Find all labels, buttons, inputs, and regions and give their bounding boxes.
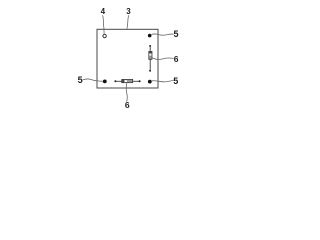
pad 5 (bottom left): [103, 80, 107, 84]
svg-text:6: 6: [174, 54, 179, 64]
svg-text:5: 5: [173, 76, 178, 86]
label 6 (bottom) with leader to horizontal component: [125, 83, 130, 110]
pad 5 (bottom right): [148, 80, 152, 84]
label 5 (bottom right) with leader to pad: [152, 76, 179, 86]
label 4 with leader to mounting hole: [101, 7, 106, 34]
mounting hole 4: [103, 34, 106, 37]
label 5 (top right) with leader to pad: [152, 29, 179, 39]
svg-text:3: 3: [126, 7, 131, 16]
component 6 (vertical, right side): [149, 45, 152, 72]
svg-text:5: 5: [78, 75, 83, 85]
component 6 (horizontal, bottom): [114, 79, 140, 82]
pad 5 (top right): [148, 34, 152, 38]
svg-text:4: 4: [101, 7, 106, 16]
label 3 with leader to board edge: [126, 7, 131, 29]
label 6 (right) with leader to vertical component: [152, 54, 179, 64]
svg-text:5: 5: [173, 29, 178, 39]
svg-text:6: 6: [125, 100, 130, 110]
label 5 (bottom left) with leader to pad: [78, 75, 103, 85]
board outline 3: [97, 29, 158, 88]
